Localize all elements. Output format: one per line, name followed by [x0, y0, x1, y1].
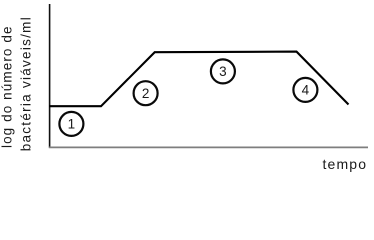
svg-text:tempo: tempo [323, 156, 367, 172]
phase circle 2 [134, 81, 158, 105]
x-axis [49, 146, 368, 148]
phase circle 3 [211, 59, 235, 83]
growth curve [49, 52, 349, 107]
y-axis label line 1 [0, 27, 15, 149]
svg-text:1: 1 [68, 117, 76, 132]
phase circle 4 [293, 78, 317, 102]
svg-text:4: 4 [302, 83, 310, 98]
svg-text:log do número de: log do número de [0, 27, 15, 149]
y-axis [49, 4, 51, 148]
phase circle 1 [59, 112, 83, 136]
svg-text:3: 3 [219, 64, 227, 79]
svg-text:2: 2 [142, 86, 150, 101]
svg-text:bactéria viáveis/ml: bactéria viáveis/ml [19, 17, 34, 151]
y-axis label line 2 [19, 17, 34, 151]
